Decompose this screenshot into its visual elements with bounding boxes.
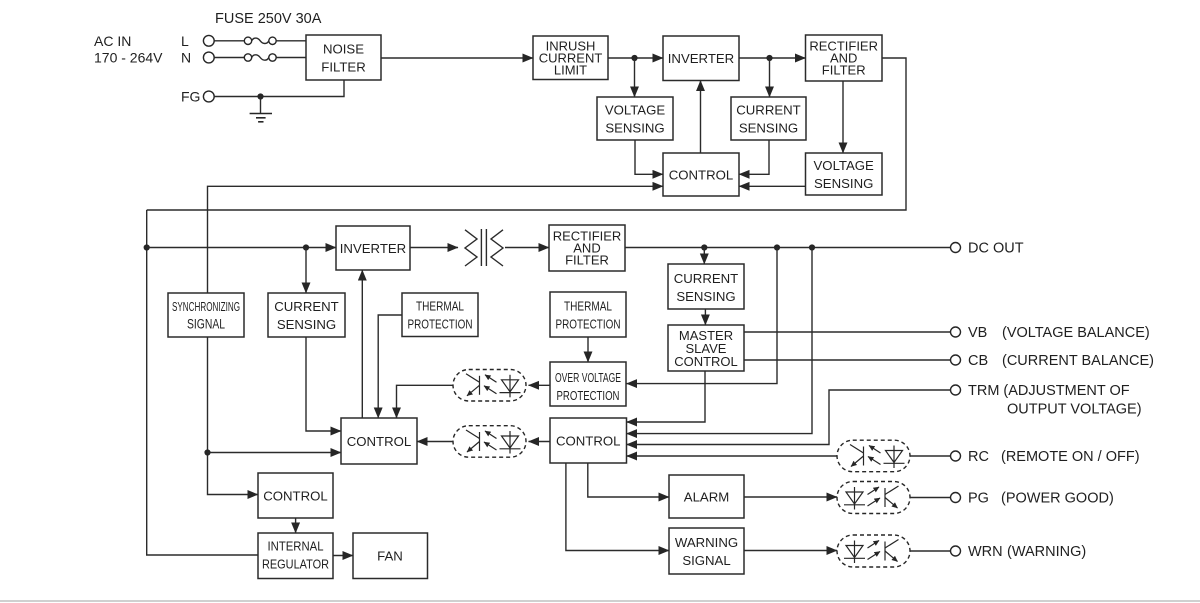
block FAN (353, 533, 428, 579)
wire DC bus left vertical down to internal regulator (147, 210, 258, 555)
terminal RC (951, 451, 961, 461)
svg-text:(WARNING): (WARNING) (1007, 544, 1086, 560)
wire control to inverter (700, 81, 702, 154)
wire voltage sensing 2 to control (739, 185, 806, 187)
svg-text:DC OUT: DC OUT (968, 241, 1024, 257)
wire noise filter to inrush current limit (381, 57, 533, 59)
block THERMAL PROTECTION (middle) (550, 292, 626, 337)
wire thermal protection left to control top (378, 315, 402, 418)
svg-text:SENSING: SENSING (676, 289, 735, 304)
svg-text:FG: FG (181, 89, 200, 105)
wire secondary control to opto 2 (529, 441, 551, 443)
svg-text:(POWER GOOD): (POWER GOOD) (1001, 491, 1114, 507)
wire opto 1 to control top (397, 385, 454, 418)
svg-text:CONTROL: CONTROL (556, 434, 620, 449)
block VOLTAGE SENSING (primary) (597, 97, 673, 140)
wire tap down to voltage sensing (634, 58, 636, 97)
svg-text:(VOLTAGE BALANCE): (VOLTAGE BALANCE) (1002, 325, 1150, 341)
wire DC output bus (625, 247, 951, 249)
wire inverter 2 to transformer (410, 247, 458, 249)
wire opto 5 to WRN terminal (910, 550, 951, 552)
block INTERNAL REGULATOR (258, 533, 333, 579)
svg-text:CONTROL: CONTROL (669, 168, 733, 183)
block CURRENT SENSING (output) (668, 264, 744, 309)
wire secondary control to alarm (588, 463, 669, 497)
terminal FG (203, 91, 214, 102)
block CURRENT SENSING (primary) (731, 97, 806, 140)
wire current sensing 4 to master slave control (704, 309, 706, 325)
junction dot bus / over voltage protection (774, 244, 780, 250)
svg-text:FAN: FAN (377, 549, 403, 564)
wire opto 4 to PG terminal (910, 497, 951, 499)
block WARNING SIGNAL (669, 528, 744, 574)
junction dot FG/ground (257, 93, 263, 99)
ground (250, 97, 272, 122)
fuse F2 (N) (244, 54, 276, 61)
wire TRM to secondary control (627, 390, 952, 445)
svg-text:REGULATOR: REGULATOR (262, 556, 329, 571)
svg-text:OVER VOLTAGE: OVER VOLTAGE (555, 370, 621, 385)
block INVERTER (primary) (663, 36, 739, 81)
svg-text:(CURRENT BALANCE): (CURRENT BALANCE) (1002, 353, 1154, 369)
opto-isolator U2 (control to control) (453, 426, 526, 458)
svg-text:SENSING: SENSING (277, 317, 336, 332)
wire master slave control to secondary control (627, 371, 706, 422)
wire synchronizing signal down to control 2 (208, 337, 259, 495)
wire secondary control to warning signal (566, 463, 669, 551)
svg-text:CURRENT: CURRENT (674, 271, 738, 286)
svg-text:AC IN: AC IN (94, 33, 131, 49)
wire inverter to rectifier (739, 57, 806, 59)
svg-text:CONTROL: CONTROL (674, 354, 738, 369)
svg-text:ALARM: ALARM (684, 490, 729, 505)
wire fuse L to noise filter (276, 40, 306, 42)
terminal DC OUT (951, 243, 961, 253)
svg-text:SENSING: SENSING (739, 121, 798, 136)
svg-text:FILTER: FILTER (565, 253, 609, 268)
block INRUSH CURRENT LIMIT (533, 36, 608, 80)
wire bus tap to secondary control (627, 248, 813, 434)
wire tap down to current sensing 4 (703, 248, 705, 265)
svg-text:INTERNAL: INTERNAL (268, 538, 324, 553)
terminal L (203, 35, 214, 46)
terminal WRN (951, 546, 961, 556)
block ALARM (669, 475, 744, 518)
svg-text:VB: VB (968, 325, 987, 341)
svg-text:L: L (181, 33, 189, 49)
junction dot DC bus / second stage (144, 244, 150, 250)
wire RC opto to secondary control (627, 455, 838, 457)
svg-text:FILTER: FILTER (822, 63, 866, 78)
junction dot sync line / control branch (204, 449, 210, 455)
svg-text:WARNING: WARNING (675, 535, 738, 550)
wire fuse N to noise filter (276, 57, 306, 59)
opto-isolator U5 (WRN output) (837, 535, 910, 567)
svg-text:CONTROL: CONTROL (347, 434, 411, 449)
opto-isolator U1 (OVP to control) (453, 370, 526, 402)
wire internal regulator to fan (333, 555, 353, 557)
wire tap down to current sensing (769, 58, 771, 97)
block RECTIFIER AND FILTER (primary) (806, 35, 883, 81)
svg-text:WRN: WRN (968, 544, 1003, 560)
svg-text:CONTROL: CONTROL (263, 489, 327, 504)
svg-text:TRM (ADJUSTMENT OF: TRM (ADJUSTMENT OF (968, 383, 1130, 399)
wire secondary main control to inverter 2 (361, 270, 363, 418)
wire tap down to current sensing 3 (305, 248, 307, 294)
wire DC bus to inverter 2 (147, 247, 336, 249)
block RECTIFIER AND FILTER (secondary) (549, 225, 625, 271)
wire voltage sensing to control (635, 140, 663, 174)
block CONTROL (primary) (663, 153, 739, 196)
block THERMAL PROTECTION (left) (402, 293, 478, 337)
block CONTROL (secondary main) (341, 418, 417, 464)
block CONTROL (secondary, right) (550, 418, 627, 463)
transformer T1 (465, 229, 503, 266)
wire current sensing 3 to control (306, 337, 341, 431)
fuse F1 (L) (244, 37, 276, 44)
svg-text:INVERTER: INVERTER (340, 241, 406, 256)
svg-text:OUTPUT VOLTAGE): OUTPUT VOLTAGE) (1007, 402, 1142, 418)
svg-text:(REMOTE ON / OFF): (REMOTE ON / OFF) (1001, 449, 1140, 465)
block NOISE FILTER (306, 35, 381, 80)
svg-text:VOLTAGE: VOLTAGE (814, 158, 875, 173)
svg-text:VOLTAGE: VOLTAGE (605, 103, 666, 118)
terminal PG (951, 493, 961, 503)
page footer rule (0, 600, 1200, 602)
block CURRENT SENSING (secondary input) (268, 293, 345, 337)
junction dot inrush/voltage sensing (631, 55, 637, 61)
svg-text:RC: RC (968, 449, 989, 465)
svg-text:SIGNAL: SIGNAL (682, 553, 730, 568)
wire bus tap to over voltage protection (627, 248, 778, 384)
wire transformer to rectifier 2 (505, 247, 549, 249)
wire control 2 to internal regulator (295, 518, 297, 533)
svg-text:170 - 264V: 170 - 264V (94, 50, 163, 66)
wire L to fuse (214, 40, 244, 42)
junction dot bus / current sensing 3 (303, 244, 309, 250)
block VOLTAGE SENSING (after rectifier) (806, 153, 883, 195)
wire opto 3 to RC terminal (910, 455, 951, 457)
wire over voltage protection to opto 1 (529, 384, 551, 386)
block INVERTER (secondary) (336, 226, 410, 270)
svg-text:SIGNAL: SIGNAL (187, 317, 225, 332)
block SYNCHRONIZING SIGNAL (168, 293, 244, 337)
wire rectifier output to DC bus (right corner down and left) (147, 58, 906, 210)
terminal N (203, 52, 214, 63)
svg-text:SYNCHRONIZING: SYNCHRONIZING (172, 300, 240, 314)
opto-isolator U3 (RC input) (837, 440, 910, 472)
junction dot inverter/current sensing (766, 55, 772, 61)
wire CB (744, 359, 951, 361)
terminal VB (951, 327, 961, 337)
svg-text:N: N (181, 50, 191, 66)
wire current sensing to control (739, 140, 769, 174)
wire VB (744, 331, 951, 333)
wire warning signal to opto 5 (744, 550, 837, 552)
block OVER VOLTAGE PROTECTION (550, 362, 626, 406)
block CONTROL (fan control) (258, 473, 333, 518)
block MASTER SLAVE CONTROL (668, 325, 744, 371)
svg-text:SENSING: SENSING (814, 176, 873, 191)
svg-text:PROTECTION: PROTECTION (408, 317, 473, 332)
wire N to fuse (214, 57, 244, 59)
junction dot bus / control feedback (809, 244, 815, 250)
wire rectifier down to voltage sensing 2 (842, 81, 844, 153)
svg-text:PROTECTION: PROTECTION (556, 317, 621, 332)
wire alarm to opto 4 (744, 496, 837, 498)
wire sync branch to secondary main control (208, 452, 342, 454)
svg-text:NOISE: NOISE (323, 42, 364, 57)
svg-text:FUSE 250V 30A: FUSE 250V 30A (215, 11, 322, 27)
svg-text:CURRENT: CURRENT (274, 299, 338, 314)
svg-text:SENSING: SENSING (605, 121, 664, 136)
wire synchronizing signal to primary control (208, 186, 664, 292)
junction dot bus / current sensing 4 (701, 244, 707, 250)
terminal CB (951, 355, 961, 365)
wire thermal protection to over voltage protection (587, 337, 589, 362)
svg-text:PG: PG (968, 491, 989, 507)
wire inrush to inverter (608, 57, 663, 59)
svg-text:THERMAL: THERMAL (416, 299, 464, 314)
svg-text:LIMIT: LIMIT (554, 62, 587, 77)
svg-text:CURRENT: CURRENT (736, 103, 800, 118)
opto-isolator U4 (PG output) (837, 482, 910, 514)
svg-text:CB: CB (968, 353, 988, 369)
svg-text:PROTECTION: PROTECTION (557, 388, 620, 403)
wire FG to noise filter bottom (214, 80, 344, 97)
wire opto 2 to main control (417, 441, 453, 443)
terminal TRM (951, 385, 961, 395)
svg-text:INVERTER: INVERTER (668, 51, 734, 66)
svg-text:THERMAL: THERMAL (564, 299, 612, 314)
svg-text:FILTER: FILTER (321, 60, 365, 75)
